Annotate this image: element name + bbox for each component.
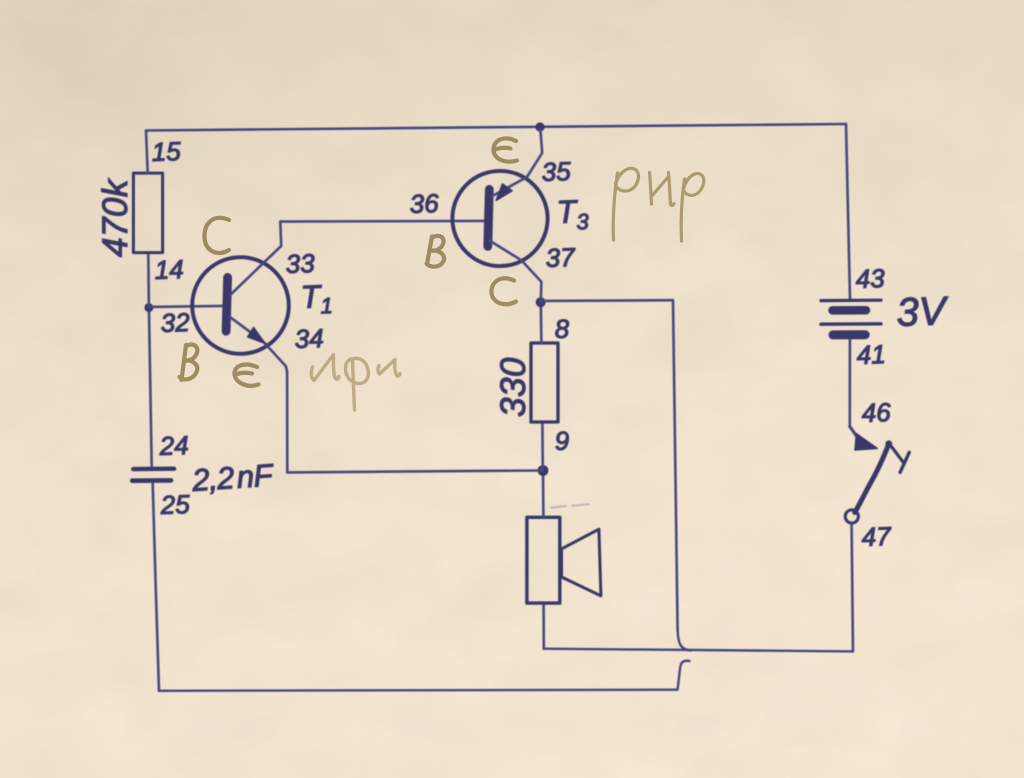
node J9 — [538, 465, 549, 476]
wire bottom-most rail — [159, 690, 678, 691]
handwritten C (T3 collector) — [491, 278, 516, 304]
svg-text:330: 330 — [494, 357, 533, 417]
faint pencil dash above horn — [551, 506, 566, 508]
node J2 — [536, 297, 546, 307]
T3 emitter arrow — [496, 184, 512, 200]
wire node32 to cap — [149, 308, 152, 467]
svg-text:15: 15 — [151, 136, 181, 167]
handwritten word ири — [311, 355, 400, 411]
transistor T3 circle — [452, 171, 547, 266]
switch fixed contact — [891, 446, 903, 463]
wire right vertical to battery — [846, 124, 850, 299]
wire top rail — [146, 124, 846, 131]
svg-text:32: 32 — [160, 307, 190, 338]
T3 emitter path — [492, 128, 543, 196]
capacitor 2,2nF plates (pins 24/25) — [133, 467, 174, 472]
wire J9 to speaker — [542, 470, 545, 517]
svg-text:47: 47 — [861, 521, 892, 552]
wire J2 to R2 — [539, 302, 542, 343]
T1 emitter path — [230, 317, 287, 372]
svg-text:35: 35 — [541, 156, 571, 187]
svg-text:37: 37 — [545, 242, 576, 273]
svg-text:36: 36 — [409, 188, 439, 219]
svg-text:9: 9 — [554, 426, 570, 456]
svg-text:33: 33 — [285, 248, 315, 279]
wire emitter rail to J9 — [287, 471, 541, 473]
handwritten C (T1 collector) — [204, 218, 229, 253]
svg-text:14: 14 — [154, 254, 184, 285]
T1 collector path — [230, 222, 282, 296]
hook joining inner branch to bottom rail — [678, 630, 691, 651]
svg-text:41: 41 — [856, 339, 886, 370]
speaker horn — [560, 529, 601, 596]
node J1 (T3 emitter to top rail) — [535, 122, 544, 131]
wire left vertical: cap to bottom-left corner — [153, 483, 159, 691]
switch pivot circle (pin 47) — [845, 510, 858, 523]
T1 base wire — [149, 306, 222, 307]
resistor 330 body (pins 8/9) — [531, 343, 558, 422]
switch arrow (pin 46) — [850, 427, 858, 438]
svg-text:43: 43 — [855, 263, 885, 294]
handwritten B (T1 base) — [182, 345, 187, 380]
wire top-left corner to R1 — [146, 131, 148, 174]
handwritten E (T3 emitter) — [494, 138, 518, 161]
wire inner loop right branch — [541, 299, 673, 302]
transistor T1 circle — [192, 257, 289, 354]
wire T1 emitter down — [286, 372, 289, 472]
wire T1 collector to T3 base — [280, 220, 484, 223]
switch lever — [855, 444, 889, 513]
speaker body — [527, 517, 560, 603]
T3 collector path — [489, 240, 541, 302]
wire speaker bottom — [542, 603, 545, 649]
battery 3V (pins 43/41) — [821, 300, 881, 335]
resistor 470k body (pins 15/14) — [133, 173, 162, 253]
hook rise from bottom rail — [678, 661, 690, 690]
svg-text:8: 8 — [554, 313, 570, 344]
wire resistor R2 bottom to J9 — [541, 422, 544, 470]
node N32 — [144, 303, 153, 312]
handwritten E (T1 emitter) — [234, 365, 258, 386]
T1 base bar — [226, 277, 228, 331]
svg-text:25: 25 — [159, 489, 190, 520]
T1 emitter arrow — [248, 328, 265, 344]
svg-text:34: 34 — [294, 323, 324, 354]
svg-text:3V: 3V — [896, 289, 950, 335]
T3 base bar — [488, 189, 490, 246]
svg-text:470k: 470k — [96, 178, 135, 257]
wire R1 bottom to node32 — [147, 253, 150, 308]
wire bottom rail (speaker to switch) — [544, 649, 853, 652]
wire battery to switch — [848, 340, 851, 427]
svg-text:24: 24 — [158, 430, 189, 461]
handwritten word рир — [613, 168, 704, 241]
wire switch to bottom rail — [852, 523, 853, 651]
handwritten B (T3 base) — [428, 237, 433, 262]
svg-text:46: 46 — [861, 397, 891, 428]
